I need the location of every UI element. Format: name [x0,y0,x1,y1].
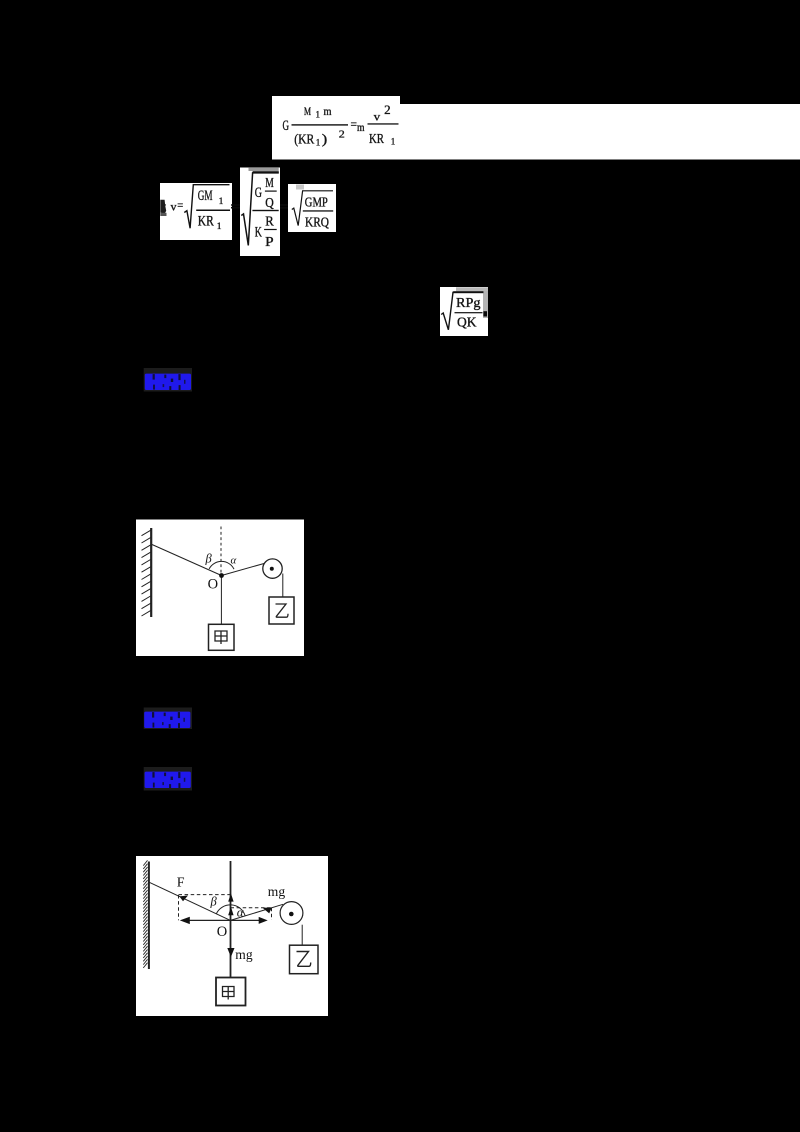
box B (yi) d1 [269,597,294,624]
box A (jia) d2 [216,978,246,1006]
string O to pulley [222,564,265,576]
wall line d2 [148,862,150,970]
dashed vertical component left [178,895,180,920]
radical 2b [241,173,278,246]
equation 1: G M1m/(KR1)^2 = m v^2/KR1 [283,103,399,148]
svg-text:(KR: (KR [294,133,315,148]
wall line d1 [150,528,152,617]
svg-text:G: G [255,185,263,201]
glyph yi in box B d1 [276,604,289,617]
svg-text:GMP: GMP [305,195,328,210]
svg-text:mg: mg [268,884,286,899]
comma tip at right edge of equation 3 [483,311,487,316]
radical 3 [441,292,483,330]
svg-text:M: M [304,106,311,118]
string pulley to box B [282,574,284,598]
knot dot at O d1 [219,573,224,578]
svg-text:K: K [255,225,263,241]
equals sign tips between 2a and 2b [231,204,241,205]
string wall to O d2 [149,882,230,920]
left arrowhead [180,917,190,924]
radical 2a [184,185,229,229]
pulley circle d1 [263,559,282,578]
clipped dark glyph at left edge of equation 2a [160,200,166,214]
svg-text:α: α [231,554,237,566]
gray smear top right 3 [456,287,488,291]
svg-text:P: P [265,234,274,249]
dashed horizontal top [179,894,231,896]
box A (jia) d1 [209,624,235,650]
equation 2c white box: sqrt(GMP/KRQ) [288,184,336,232]
equation 3 white box: sqrt(RPg/QK) [440,287,488,336]
wall hatching d2 [143,860,147,968]
equation 2a white box: v = sqrt(GM1/KR1) [160,183,232,240]
string pulley to box B d2 [301,925,303,946]
up arrowhead 1 [228,893,233,901]
svg-text:O: O [208,577,218,593]
down arrowhead mg [227,948,234,957]
svg-text:QK: QK [457,315,477,330]
dashed vertical above O [220,527,222,574]
svg-text:v: v [374,110,381,124]
glyph jia in box A d2 [223,987,235,1000]
dashed vertical right [271,908,273,920]
svg-text:R: R [265,214,274,229]
blue label 2 halo [144,708,192,730]
string wall to O [152,545,222,576]
svg-text:F: F [177,876,185,891]
svg-text:1: 1 [316,109,321,119]
wall hatching d1 [142,530,151,616]
svg-text:M: M [265,175,274,190]
equation 1 white box [272,96,400,160]
svg-text:v: v [171,200,177,214]
svg-text:α: α [237,905,245,920]
pulley axle dot d2 [289,912,294,917]
equation 1 white strip [400,104,800,160]
string O to pulley d2 [230,904,283,920]
pulley axle dot d1 [270,567,274,571]
equals sign tips between 2b and 2c [280,204,291,206]
gray notch top 2c [296,185,304,190]
svg-text:m: m [357,120,365,134]
svg-text:): ) [322,133,328,148]
F arrowhead on string [179,896,188,902]
blue label 3 text [145,772,191,788]
up arrowhead 2 [228,907,233,915]
glyph jia in box A d1 [215,631,227,644]
svg-text:KR: KR [198,214,214,230]
blue label 1 text [145,374,191,390]
pulley circle d2 [280,902,303,925]
svg-text:1: 1 [219,197,224,207]
svg-text:mg: mg [235,947,253,962]
blue label 2 text [144,712,190,728]
svg-text:G: G [283,118,290,134]
svg-text:β: β [205,552,213,566]
horizontal arrow left shaft [182,919,230,921]
blue label 3 halo [144,767,192,791]
svg-text:O: O [217,924,227,940]
svg-text:Q: Q [265,195,274,210]
angle arc at O d2 [216,905,245,916]
svg-text:KRQ: KRQ [305,215,329,230]
svg-text:1: 1 [217,222,222,232]
horizontal arrow right shaft [230,919,264,921]
radical 2c [292,191,333,226]
svg-text:2: 2 [339,128,345,140]
svg-text:1: 1 [391,137,396,147]
svg-text:=: = [177,198,183,212]
dashed horizontal mid [231,907,272,909]
svg-text:KR: KR [369,132,385,147]
svg-text:m: m [324,104,333,118]
mg vector arrowhead on string to pulley [263,908,272,914]
glyph yi in box B d2 [297,952,311,967]
diagram 1 white box [136,520,304,657]
angle arc at O [209,561,234,569]
string O to box A [220,576,222,625]
blue label 1 halo [144,368,192,392]
svg-text:β: β [210,895,218,909]
diagram 2 white box [136,856,328,1016]
right arrowhead [259,917,268,924]
svg-text:RPg: RPg [456,295,481,310]
equation 2b white box: sqrt(G(M/Q)/(K(R/P))) [240,168,280,257]
svg-text:1: 1 [316,137,321,147]
svg-text:2: 2 [384,103,391,117]
svg-text:GM: GM [198,188,213,204]
vertical line through O d2 [230,861,232,978]
box B (yi) d2 [290,945,319,974]
gray top smear 2b [249,168,279,171]
